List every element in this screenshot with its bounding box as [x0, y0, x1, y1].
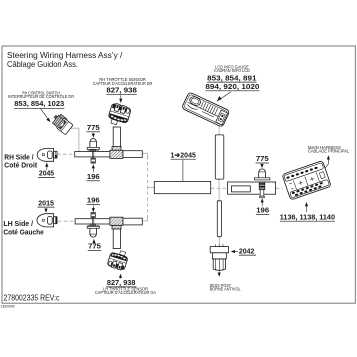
dash central box to right box — [211, 187, 228, 189]
caption DESS post — [210, 283, 242, 292]
wire gauge stem — [218, 126, 220, 134]
dash 2045 to RH tube — [57, 153, 75, 155]
RH sensor tube — [113, 127, 120, 147]
svg-text:196: 196 — [87, 196, 100, 205]
svg-text:196: 196 — [87, 172, 100, 181]
caption LH throttle sensor — [95, 287, 156, 295]
svg-text:CÂBLAGE PRINCIPAL: CÂBLAGE PRINCIPAL — [308, 149, 350, 154]
dash right box to main harness — [276, 187, 283, 189]
svg-text:196: 196 — [256, 206, 269, 215]
LH 196 connector (above) — [91, 213, 95, 218]
svg-text:INTERRUPTEUR DE CONTRÔLE DR: INTERRUPTEUR DE CONTRÔLE DR — [8, 94, 74, 99]
arrow down to DESS caption — [218, 272, 220, 274]
svg-text:Coté Droit: Coté Droit — [4, 160, 37, 169]
LH boot hatched big — [110, 217, 123, 225]
svg-text:853, 854, 1023: 853, 854, 1023 — [14, 99, 64, 108]
svg-text:2015: 2015 — [38, 198, 54, 207]
wire RH tube to junction — [142, 153, 147, 158]
caption main harness — [308, 145, 350, 154]
svg-text:1➔2045: 1➔2045 — [171, 150, 197, 159]
arrow down to right bulb — [261, 163, 263, 166]
leader main harness arrow up — [322, 159, 328, 172]
DESS tube — [217, 201, 221, 237]
caption RH throttle sensor — [93, 77, 153, 86]
LH bulb socket 775 (points down) — [87, 217, 99, 237]
RH 196 connector — [91, 158, 95, 163]
RH boot hatched small — [112, 147, 121, 151]
RH throttle sensor 827,938 — [107, 102, 132, 127]
svg-text:BORNE ANTIVOL: BORNE ANTIVOL — [210, 287, 242, 292]
border frame — [2, 46, 355, 303]
RH boot hatched big — [110, 150, 123, 158]
wire LH tube to junction — [142, 216, 147, 221]
arrow down to RH bulb — [92, 133, 94, 135]
LH boot hatched small — [112, 225, 121, 229]
arrow down to LH 196 conn — [92, 205, 94, 209]
central junction box — [154, 181, 210, 193]
RH tube right — [123, 151, 143, 158]
dash 2015 to LH tube — [58, 220, 75, 222]
wire DESS stem — [218, 237, 220, 245]
svg-text:CADRAN INFO LCD: CADRAN INFO LCD — [214, 68, 250, 73]
svg-text:Câblage Guidon Ass.: Câblage Guidon Ass. — [7, 59, 78, 69]
RH bulb socket 775 — [87, 139, 99, 159]
arrow up to main harness — [306, 206, 308, 213]
wire junction to central box — [147, 187, 154, 189]
LH tube right — [123, 218, 143, 225]
right assembly inner rect — [232, 186, 251, 192]
arrow up to LH bulb — [93, 242, 95, 243]
leader arrow down to sensor — [120, 95, 122, 99]
LH throttle sensor 827,938 — [107, 248, 129, 271]
svg-text:Coté Gauche: Coté Gauche — [3, 227, 43, 236]
RH tube left — [75, 152, 110, 157]
LH sensor tube (down) — [113, 229, 120, 249]
svg-text:827, 938: 827, 938 — [106, 86, 137, 95]
svg-text:775: 775 — [87, 123, 101, 132]
svg-text:139/009b: 139/009b — [1, 305, 15, 309]
right assembly box — [228, 182, 276, 194]
wire from RH switch — [70, 128, 79, 151]
gauge tube — [215, 135, 224, 179]
LH tube left — [75, 219, 110, 224]
arrow down to 2015 conn — [45, 208, 47, 210]
leader to gauge — [220, 92, 232, 100]
leader arrow left to DESS — [234, 251, 238, 253]
svg-text:278002335 REV:c: 278002335 REV:c — [4, 294, 60, 303]
svg-text:1136, 1138, 1140: 1136, 1138, 1140 — [280, 212, 335, 221]
dash vertical junction — [146, 156, 148, 218]
wire gauge tube down — [218, 179, 220, 201]
caption LCD info gauge — [214, 64, 250, 73]
svg-text:2045: 2045 — [39, 169, 55, 178]
leader to switch — [41, 109, 49, 120]
svg-text:2042: 2042 — [239, 246, 255, 255]
leader with dot to central box — [182, 160, 184, 187]
svg-text:775: 775 — [256, 154, 270, 163]
arrow up to right 196 conn — [261, 202, 263, 207]
right bulb socket 775 — [255, 169, 270, 198]
arrow up to LH sensor — [120, 277, 122, 278]
caption RH control switch — [8, 90, 74, 99]
svg-text:CAPTEUR D’ACCELERATEUR GA: CAPTEUR D’ACCELERATEUR GA — [95, 290, 156, 295]
arrow up to RH 196 conn — [92, 168, 94, 173]
arrow up to 2045 conn — [46, 166, 48, 170]
svg-text:894, 920, 1020: 894, 920, 1020 — [205, 82, 259, 91]
